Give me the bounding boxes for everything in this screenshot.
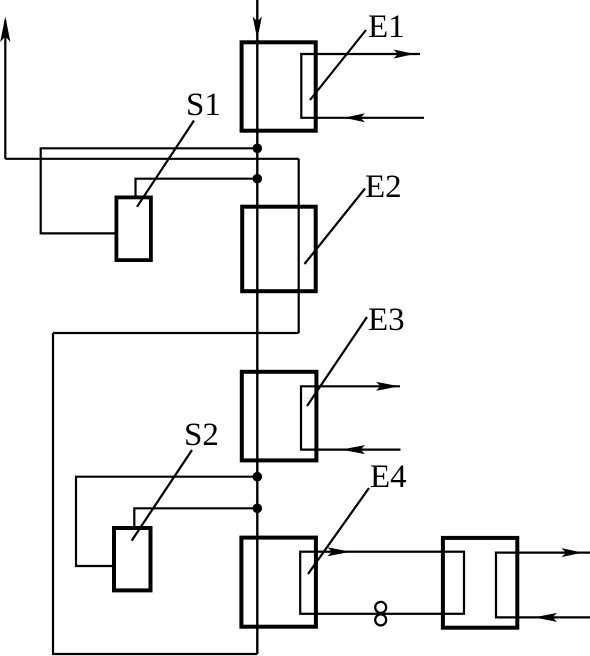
- wire: drop at x=298.7 through E2: [298, 159, 300, 333]
- heat exchanger E1: [242, 42, 316, 130]
- sensor S1: [116, 197, 150, 260]
- leader line E3: [307, 317, 367, 406]
- svg-text:E3: E3: [368, 302, 405, 338]
- svg-text:E4: E4: [370, 459, 407, 495]
- heat exchanger E2: [242, 207, 316, 292]
- node dot A: [252, 144, 262, 154]
- wire: bottom return y=654: [53, 653, 257, 655]
- leader line S2: [132, 450, 192, 541]
- node dot D: [252, 504, 262, 514]
- arrow: coolant inlet (left): [534, 613, 557, 622]
- wire: recycle line across top (y=158.8): [5, 158, 298, 160]
- node dot B: [252, 174, 262, 184]
- arrow: E1 outlet (right): [394, 50, 415, 59]
- condenser coolant tube: [496, 553, 590, 618]
- arrow: coolant outlet (right): [562, 548, 583, 557]
- wire: node A to S1 left port: [41, 148, 258, 233]
- E1 tube pass: [301, 54, 424, 118]
- leader line S1: [137, 121, 194, 207]
- svg-text:S1: S1: [186, 87, 221, 123]
- wire: node C to S2 left port: [76, 477, 257, 566]
- svg-text:E2: E2: [365, 169, 402, 205]
- arrow: feed into E1 (downward): [253, 17, 262, 40]
- arrow: E3 outlet (right): [376, 382, 399, 391]
- leader line E2: [305, 189, 366, 265]
- heat exchanger E4: [241, 538, 316, 627]
- wire: left riser to top arrow: [4, 20, 6, 159]
- sensor S2: [114, 528, 151, 590]
- wire: main vertical process line: [256, 0, 258, 654]
- leader line E1: [310, 30, 366, 100]
- heat exchanger E3: [242, 372, 317, 461]
- leader line E4: [308, 488, 369, 574]
- arrow: top-left outlet (upward): [0, 17, 10, 43]
- node dot C: [252, 472, 262, 482]
- wire: horizontal y=333: [53, 332, 299, 334]
- arrow: E3 inlet (left): [341, 445, 365, 454]
- wire: node D to S2 top port: [134, 508, 257, 527]
- E3 tube pass: [301, 386, 401, 449]
- svg-text:E1: E1: [368, 9, 405, 45]
- wire: left drop x=53: [52, 333, 54, 655]
- arrow: E1 inlet (left): [344, 113, 365, 122]
- steam trap (double circle): [375, 602, 386, 613]
- arrow: E4 vapour to condenser: [328, 547, 351, 556]
- svg-text:S2: S2: [184, 417, 219, 453]
- E4 tube loop to condenser: [300, 552, 464, 614]
- wire: node B to S1 top port: [136, 179, 258, 197]
- condenser box: [443, 538, 517, 628]
